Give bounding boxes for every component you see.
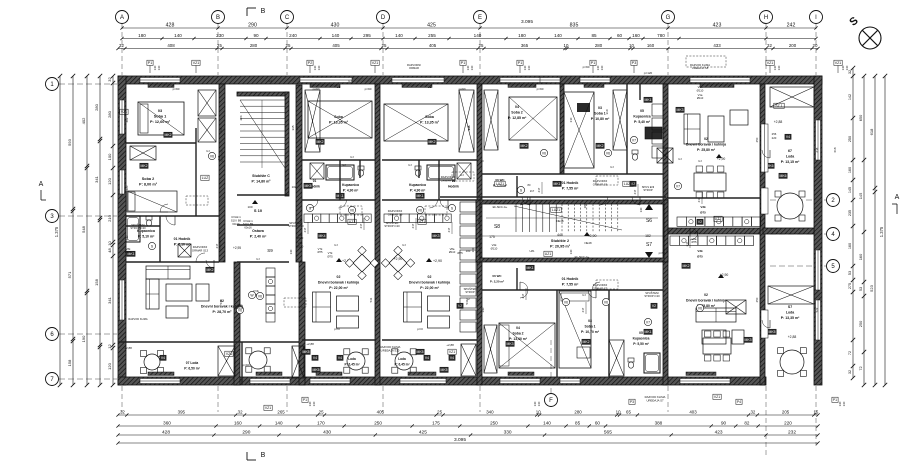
svg-text:MK2: MK2: [521, 144, 528, 148]
svg-text:428: 428: [166, 22, 175, 28]
svg-text:130: 130: [312, 401, 316, 406]
svg-text:S10 I B9: S10 I B9: [231, 218, 242, 222]
svg-text:Ø110: Ø110: [237, 306, 244, 310]
svg-text:290: 290: [248, 22, 257, 28]
svg-text:RAZVOD KLIMA: RAZVOD KLIMA: [128, 317, 148, 321]
svg-text:180: 180: [518, 33, 526, 38]
svg-text:280: 280: [595, 43, 603, 48]
svg-text:V3k: V3k: [700, 205, 706, 209]
svg-text:Ø110: Ø110: [697, 88, 704, 92]
svg-text:LUZ1: LUZ1: [552, 208, 560, 212]
svg-text:250: 250: [755, 137, 759, 142]
svg-text:P2: P2: [308, 61, 312, 65]
svg-text:120: 120: [125, 185, 129, 190]
svg-text:V6: V6: [258, 294, 262, 298]
svg-text:90: 90: [253, 33, 259, 38]
svg-text:ORMAR S13: ORMAR S13: [192, 248, 209, 252]
svg-text:V2: V2: [698, 220, 702, 224]
svg-text:Stubište C: Stubište C: [252, 174, 270, 178]
svg-text:170: 170: [317, 420, 325, 425]
svg-text:UZ1: UZ1: [715, 217, 722, 221]
svg-text:408: 408: [167, 43, 175, 48]
svg-text:130: 130: [527, 65, 531, 70]
svg-text:V6: V6: [418, 208, 422, 212]
svg-text:B: B: [261, 452, 266, 459]
svg-text:224: 224: [219, 127, 223, 132]
svg-text:100: 100: [665, 247, 669, 252]
svg-text:p=90: p=90: [365, 87, 372, 91]
svg-text:395: 395: [178, 409, 186, 414]
svg-text:MK3: MK3: [433, 234, 440, 238]
svg-text:224: 224: [239, 115, 243, 120]
svg-text:A: A: [120, 15, 124, 21]
svg-text:UJ: UJ: [582, 293, 586, 297]
svg-text:217: 217: [581, 307, 585, 312]
svg-text:STROP: STROP: [643, 188, 652, 192]
svg-text:Kupaonica: Kupaonica: [342, 183, 359, 187]
svg-text:190: 190: [81, 335, 86, 342]
svg-text:10: 10: [107, 241, 112, 246]
svg-text:160: 160: [647, 43, 655, 48]
svg-text:60x16: 60x16: [244, 225, 252, 229]
svg-text:MK2: MK2: [317, 140, 324, 144]
svg-text:340: 340: [663, 307, 667, 312]
svg-text:140: 140: [474, 33, 482, 38]
svg-text:03: 03: [588, 319, 592, 323]
svg-text:210: 210: [125, 235, 129, 240]
svg-text:UZ1: UZ1: [529, 249, 535, 253]
svg-text:V6: V6: [350, 208, 354, 212]
svg-text:VZ1: VZ1: [193, 61, 200, 65]
svg-text:402: 402: [125, 117, 129, 122]
svg-text:335: 335: [375, 125, 379, 130]
svg-text:10: 10: [629, 43, 634, 48]
svg-text:100: 100: [299, 217, 303, 222]
svg-text:180: 180: [138, 33, 146, 38]
svg-text:548: 548: [81, 225, 86, 232]
svg-text:P: 10,80 m²: P: 10,80 m²: [591, 117, 610, 121]
svg-text:UJ: UJ: [610, 165, 614, 169]
svg-text:02: 02: [704, 293, 708, 297]
svg-text:72: 72: [858, 366, 863, 370]
svg-text:335: 335: [467, 125, 471, 130]
svg-text:V4: V4: [786, 135, 790, 139]
svg-text:P: 2,20 m²: P: 2,20 m²: [490, 279, 504, 283]
svg-text:p=90: p=90: [459, 87, 466, 91]
svg-text:310: 310: [605, 109, 609, 114]
svg-text:UJ: UJ: [206, 149, 210, 153]
svg-text:Dnevni boravak i kuhinja: Dnevni boravak i kuhinja: [686, 142, 726, 146]
svg-text:205: 205: [782, 409, 790, 414]
svg-text:Stubište 2: Stubište 2: [551, 239, 569, 243]
svg-text:Soba 2: Soba 2: [512, 331, 523, 335]
svg-text:MK2: MK2: [583, 340, 590, 344]
svg-text:175: 175: [432, 420, 440, 425]
svg-text:217: 217: [537, 187, 541, 192]
svg-text:P: 6,45 m²: P: 6,45 m²: [394, 362, 409, 366]
svg-text:B: B: [261, 8, 266, 15]
svg-text:310: 310: [569, 117, 573, 122]
svg-text:140: 140: [395, 33, 403, 38]
svg-text:90: 90: [721, 420, 727, 425]
svg-text:VZ1: VZ1: [226, 352, 232, 356]
svg-text:ORMAR S9: ORMAR S9: [388, 212, 403, 216]
svg-text:Hodnik: Hodnik: [448, 184, 459, 188]
svg-text:618: 618: [833, 147, 837, 152]
svg-text:P: 5,40 m²: P: 5,40 m²: [634, 120, 651, 124]
svg-text:S6: S6: [646, 218, 652, 224]
svg-text:403: 403: [689, 409, 697, 414]
svg-text:140: 140: [332, 33, 340, 38]
svg-text:3.095: 3.095: [454, 437, 466, 443]
svg-text:618: 618: [869, 128, 874, 135]
svg-text:P: 12,85 m²: P: 12,85 m²: [508, 116, 527, 120]
svg-text:P: 13,15 m²: P: 13,15 m²: [781, 160, 800, 164]
svg-text:MK2: MK2: [429, 140, 436, 144]
svg-text:Dnevni boravak i kuhinja: Dnevni boravak i kuhinja: [318, 280, 359, 284]
svg-text:120: 120: [107, 362, 112, 369]
svg-text:01 Hodnik: 01 Hodnik: [562, 181, 579, 185]
svg-text:P: 7,10 m²: P: 7,10 m²: [174, 242, 191, 246]
svg-text:V2: V2: [466, 297, 470, 301]
svg-text:523: 523: [869, 284, 874, 291]
svg-text:402: 402: [123, 137, 127, 142]
svg-text:NE48: NE48: [585, 241, 592, 245]
svg-text:S7: S7: [646, 242, 652, 248]
svg-text:MK1: MK1: [645, 330, 652, 334]
svg-text:V2: V2: [652, 304, 656, 308]
svg-text:03: 03: [158, 109, 162, 113]
svg-text:160: 160: [848, 167, 852, 173]
svg-text:72: 72: [848, 351, 852, 355]
svg-text:142: 142: [848, 94, 852, 100]
svg-text:Ø110: Ø110: [125, 250, 132, 254]
svg-text:01: 01: [313, 179, 317, 183]
svg-text:G: G: [666, 15, 671, 21]
svg-text:V6: V6: [542, 151, 546, 155]
svg-text:STROP t=20: STROP t=20: [384, 224, 400, 228]
svg-text:140: 140: [275, 420, 283, 425]
svg-text:VZ1: VZ1: [714, 395, 720, 399]
svg-text:LUZ1: LUZ1: [624, 182, 632, 186]
svg-text:Ø75: Ø75: [317, 250, 323, 254]
svg-text:82: 82: [744, 420, 750, 425]
svg-text:780: 780: [657, 33, 665, 38]
svg-text:+2,95: +2,95: [233, 246, 241, 250]
svg-text:VZ1: VZ1: [372, 61, 379, 65]
svg-text:Kupaonica: Kupaonica: [409, 183, 426, 187]
svg-text:242: 242: [787, 22, 796, 28]
svg-text:25: 25: [286, 43, 291, 48]
svg-text:140: 140: [289, 249, 293, 254]
svg-text:25: 25: [382, 43, 387, 48]
svg-text:10: 10: [536, 409, 541, 414]
svg-text:25: 25: [437, 409, 442, 414]
svg-text:C: C: [285, 15, 290, 21]
svg-text:02: 02: [428, 275, 432, 279]
svg-text:MK5: MK5: [769, 330, 776, 334]
svg-text:P: 2,40 m²: P: 2,40 m²: [250, 234, 267, 238]
svg-text:Kupaonica: Kupaonica: [633, 336, 650, 340]
svg-text:Soba: Soba: [334, 115, 344, 119]
svg-text:217: 217: [217, 155, 221, 160]
svg-text:Soba 1: Soba 1: [154, 114, 166, 118]
svg-text:341: 341: [233, 297, 237, 302]
svg-text:P: 13,35 m²: P: 13,35 m²: [781, 316, 800, 320]
svg-text:230: 230: [216, 33, 224, 38]
svg-text:130: 130: [777, 65, 781, 70]
svg-text:102: 102: [292, 185, 297, 189]
svg-text:UJ: UJ: [408, 163, 412, 167]
svg-text:Dnevni boravak i kuhinja: Dnevni boravak i kuhinja: [409, 280, 450, 284]
svg-text:330: 330: [504, 429, 512, 435]
svg-text:UJ: UJ: [350, 155, 354, 159]
svg-text:P: 13,00 m²: P: 13,00 m²: [509, 337, 528, 341]
svg-text:425: 425: [419, 429, 427, 435]
svg-text:250: 250: [755, 297, 759, 302]
svg-text:341: 341: [94, 175, 99, 182]
svg-text:+2,90: +2,90: [433, 259, 442, 263]
svg-text:UJ: UJ: [334, 243, 338, 247]
svg-text:Soba 2: Soba 2: [511, 110, 523, 114]
svg-text:217: 217: [303, 227, 307, 232]
svg-text:S 10: S 10: [254, 208, 263, 213]
svg-text:UJ: UJ: [402, 243, 406, 247]
svg-text:S9: S9: [267, 248, 273, 253]
svg-text:650: 650: [858, 114, 863, 121]
svg-text:433: 433: [713, 43, 721, 48]
svg-text:P: 22,00 m²: P: 22,00 m²: [329, 286, 348, 290]
svg-text:360: 360: [163, 420, 171, 425]
svg-text:100: 100: [107, 153, 112, 160]
svg-text:10: 10: [564, 43, 569, 48]
svg-text:200: 200: [789, 43, 797, 48]
svg-text:210: 210: [107, 214, 112, 221]
svg-text:P: 10,70 m²: P: 10,70 m²: [581, 330, 600, 334]
svg-text:p=90: p=90: [243, 363, 250, 367]
svg-text:Loda: Loda: [348, 357, 356, 361]
svg-text:MK6: MK6: [780, 174, 787, 178]
svg-text:02: 02: [704, 137, 708, 141]
svg-text:MK3: MK3: [745, 338, 752, 342]
svg-text:Ø110: Ø110: [449, 250, 456, 254]
svg-text:835: 835: [570, 22, 579, 28]
svg-text:V4: V4: [450, 356, 454, 360]
svg-text:388: 388: [655, 420, 663, 425]
svg-text:P: 25,80 m²: P: 25,80 m²: [697, 148, 716, 152]
svg-text:02: 02: [337, 275, 341, 279]
svg-text:Loda: Loda: [398, 357, 406, 361]
svg-text:MK5: MK5: [441, 368, 448, 372]
svg-text:UREĐAJA S8: UREĐAJA S8: [692, 66, 709, 70]
svg-text:15: 15: [813, 409, 818, 414]
svg-text:V7: V7: [632, 138, 636, 142]
svg-text:P1: P1: [303, 398, 307, 402]
svg-text:H: H: [764, 15, 768, 21]
svg-text:P: 20,95 m²: P: 20,95 m²: [550, 244, 571, 248]
svg-text:217: 217: [411, 223, 415, 228]
svg-text:145: 145: [848, 187, 852, 193]
svg-text:04: 04: [516, 326, 520, 330]
svg-text:295: 295: [363, 33, 371, 38]
svg-text:V4: V4: [425, 356, 429, 360]
svg-text:217: 217: [633, 189, 637, 194]
svg-text:UJ: UJ: [256, 257, 260, 261]
svg-text:1.375: 1.375: [54, 226, 59, 237]
svg-text:P: 4,90 m²: P: 4,90 m²: [410, 188, 426, 192]
svg-text:P4: P4: [737, 400, 741, 404]
svg-text:255: 255: [428, 33, 436, 38]
svg-text:P3: P3: [630, 400, 634, 404]
svg-text:MK2: MK2: [207, 268, 214, 272]
svg-text:P: 6,45 m²: P: 6,45 m²: [344, 362, 359, 366]
svg-text:100: 100: [466, 249, 471, 253]
svg-text:217: 217: [447, 227, 451, 232]
svg-text:STROP t=20: STROP t=20: [130, 226, 146, 230]
svg-text:32: 32: [750, 409, 755, 414]
svg-text:P: 13,35 m²: P: 13,35 m²: [329, 120, 349, 124]
svg-text:D: D: [381, 15, 386, 21]
svg-text:217: 217: [685, 241, 689, 246]
svg-text:MK3: MK3: [507, 342, 514, 346]
svg-text:85: 85: [575, 420, 581, 425]
svg-text:265: 265: [277, 409, 285, 414]
svg-text:+2,88: +2,88: [306, 342, 314, 346]
svg-text:280: 280: [250, 43, 258, 48]
svg-text:S7: S7: [788, 305, 792, 309]
svg-text:565: 565: [604, 429, 612, 435]
svg-text:MK1: MK1: [417, 194, 424, 198]
svg-text:S8: S8: [494, 224, 500, 230]
svg-text:Soba 1: Soba 1: [584, 324, 595, 328]
svg-text:448: 448: [557, 233, 563, 237]
svg-text:V6: V6: [210, 154, 214, 158]
svg-text:130: 130: [537, 401, 541, 406]
svg-text:275: 275: [848, 283, 852, 289]
svg-text:Dnevni boravak i kuhinja: Dnevni boravak i kuhinja: [686, 298, 726, 302]
svg-text:Ø75: Ø75: [691, 240, 697, 244]
svg-text:VZ1: VZ1: [767, 61, 774, 65]
svg-text:67: 67: [788, 149, 792, 153]
svg-text:618: 618: [815, 147, 819, 152]
svg-text:UJ: UJ: [678, 157, 682, 161]
svg-text:158: 158: [67, 359, 72, 366]
svg-text:60: 60: [617, 33, 623, 38]
svg-text:290: 290: [242, 429, 250, 435]
svg-text:158: 158: [94, 278, 99, 285]
svg-text:A: A: [39, 181, 44, 188]
svg-text:160: 160: [234, 420, 242, 425]
svg-text:MK5: MK5: [305, 184, 312, 188]
svg-text:280: 280: [94, 103, 99, 110]
svg-text:405: 405: [429, 43, 437, 48]
svg-text:Eb-Sb/C-G+: Eb-Sb/C-G+: [493, 205, 508, 209]
svg-text:UREĐAJA S7: UREĐAJA S7: [646, 398, 664, 402]
svg-text:3.095: 3.095: [521, 19, 533, 25]
svg-text:UZ1: UZ1: [419, 220, 426, 224]
svg-text:STROP: STROP: [465, 290, 474, 294]
svg-text:100: 100: [247, 205, 252, 209]
svg-text:145: 145: [858, 193, 863, 200]
svg-text:pr=0: pr=0: [334, 327, 340, 331]
svg-text:405: 405: [377, 409, 385, 414]
svg-text:235: 235: [848, 210, 852, 216]
svg-text:05: 05: [640, 109, 644, 113]
svg-text:53: 53: [858, 287, 863, 291]
svg-text:250: 250: [490, 420, 498, 425]
svg-text:571: 571: [67, 271, 72, 278]
svg-text:P1: P1: [461, 61, 465, 65]
svg-text:P: 6,50 m²: P: 6,50 m²: [184, 366, 200, 370]
svg-text:Ø110: Ø110: [697, 96, 704, 100]
svg-text:Kupaonica: Kupaonica: [633, 114, 650, 118]
svg-text:405: 405: [332, 43, 340, 48]
svg-text:UJ: UJ: [348, 79, 352, 83]
svg-text:ORMAR S9: ORMAR S9: [441, 178, 456, 182]
svg-text:175: 175: [489, 235, 495, 239]
svg-text:UJ: UJ: [268, 79, 272, 83]
svg-text:365: 365: [521, 43, 529, 48]
svg-text:280: 280: [107, 110, 112, 117]
svg-text:MK3: MK3: [677, 108, 684, 112]
svg-text:P1: P1: [833, 398, 837, 402]
svg-text:P: 5,50 m²: P: 5,50 m²: [633, 342, 649, 346]
svg-text:+2,88: +2,88: [446, 343, 454, 347]
svg-text:VZ1: VZ1: [449, 350, 455, 354]
svg-text:402: 402: [81, 117, 86, 124]
svg-text:250: 250: [858, 320, 863, 327]
svg-text:P1: P1: [148, 61, 152, 65]
svg-text:F: F: [549, 398, 553, 404]
svg-text:+2,88: +2,88: [124, 346, 132, 350]
svg-text:03: 03: [598, 106, 602, 110]
svg-text:175: 175: [477, 219, 481, 224]
svg-text:+2,90: +2,90: [394, 257, 403, 261]
svg-text:120: 120: [107, 177, 112, 184]
svg-text:Ø110: Ø110: [297, 236, 304, 240]
svg-text:NE4B: NE4B: [556, 219, 563, 223]
svg-text:340: 340: [481, 307, 485, 312]
svg-text:425: 425: [427, 22, 436, 28]
svg-text:130: 130: [845, 65, 849, 70]
svg-text:217: 217: [215, 243, 219, 248]
svg-text:335: 335: [295, 125, 299, 130]
svg-text:Loda: Loda: [786, 310, 794, 314]
svg-text:UZ1: UZ1: [349, 220, 356, 224]
svg-text:Ø110: Ø110: [297, 244, 304, 248]
svg-text:LUZ: LUZ: [202, 176, 208, 180]
svg-text:220: 220: [772, 136, 777, 140]
svg-text:07 Loda: 07 Loda: [186, 361, 199, 365]
svg-text:P: 14,80 m²: P: 14,80 m²: [252, 179, 272, 183]
svg-text:UZ1: UZ1: [545, 252, 552, 256]
svg-text:130: 130: [842, 401, 846, 406]
svg-text:+2,88: +2,88: [788, 335, 797, 339]
svg-text:V4: V4: [161, 356, 165, 360]
svg-text:UJ: UJ: [698, 159, 702, 163]
svg-text:ORMAR S6: ORMAR S6: [593, 182, 608, 186]
svg-text:MK4: MK4: [319, 234, 326, 238]
svg-text:V6: V6: [606, 151, 610, 155]
svg-text:06 WC: 06 WC: [492, 274, 502, 278]
svg-text:430: 430: [323, 429, 331, 435]
svg-text:Ø75: Ø75: [697, 254, 703, 258]
svg-text:48: 48: [107, 248, 112, 253]
svg-text:P: 7,55 m²: P: 7,55 m²: [562, 282, 579, 286]
svg-text:Soba 2: Soba 2: [142, 177, 154, 181]
svg-text:32: 32: [767, 43, 772, 48]
svg-text:25: 25: [217, 43, 222, 48]
